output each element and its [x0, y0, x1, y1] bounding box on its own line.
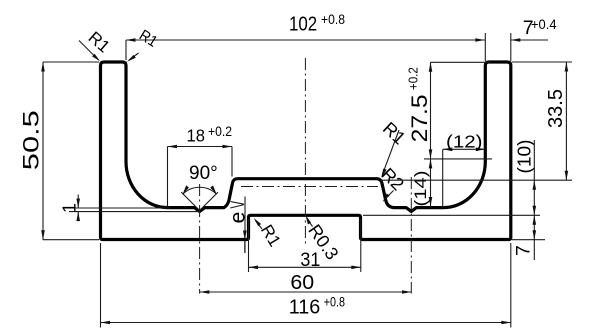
svg-text:(14): (14) — [412, 171, 430, 207]
part outline profile — [101, 62, 511, 240]
leader R1 outer top-left corner — [79, 28, 114, 61]
centerline left groove — [199, 184, 201, 294]
svg-text:31: 31 — [300, 249, 320, 271]
svg-text:116: 116 — [289, 296, 321, 319]
dimension 27.5+0.2 — [405, 62, 492, 159]
svg-text:102: 102 — [289, 13, 317, 36]
dimension 116+0.8 — [101, 243, 511, 328]
angular dimension 90 degrees — [181, 163, 218, 211]
dimension 60 — [200, 271, 412, 294]
svg-text:60: 60 — [290, 271, 314, 294]
svg-text:(12): (12) — [446, 132, 483, 152]
svg-text:(10): (10) — [514, 140, 535, 174]
dimension (14) — [412, 159, 432, 207]
dimension 50.5 left — [18, 62, 99, 240]
svg-text:18: 18 — [187, 125, 206, 145]
dimension 18+0.2 — [168, 124, 233, 206]
svg-text:33.5: 33.5 — [545, 89, 567, 128]
leader R1 inner top-left corner — [127, 27, 160, 62]
label e with leader at left step — [227, 197, 250, 254]
dimension (10) — [363, 140, 540, 216]
dimension (12) — [443, 132, 486, 208]
svg-text:7: 7 — [513, 245, 535, 256]
svg-text:+0.8: +0.8 — [321, 11, 345, 27]
leader R1 recess left corner — [254, 218, 285, 250]
dimension 7 right — [512, 215, 545, 260]
dimension 7+0.4 — [485, 16, 556, 61]
centerline horizontal middle — [241, 186, 378, 188]
centerline vertical middle — [304, 58, 306, 247]
leader R1 plateau right corner — [379, 118, 409, 178]
svg-text:27.5: 27.5 — [407, 94, 432, 142]
svg-text:+0.2: +0.2 — [208, 124, 232, 139]
leader R0.3 recess center — [304, 215, 342, 264]
dimension 102+0.8 — [126, 11, 485, 60]
svg-text:1: 1 — [59, 203, 79, 213]
svg-text:+0.2: +0.2 — [405, 67, 420, 90]
svg-text:e: e — [227, 212, 250, 224]
dimension 33.5 — [381, 62, 572, 180]
svg-text:50.5: 50.5 — [18, 110, 43, 170]
dimension 31 — [249, 219, 361, 272]
dimension 1 groove depth — [59, 195, 199, 222]
svg-text:+0.4: +0.4 — [531, 16, 557, 32]
leader R2 right step — [378, 164, 408, 202]
svg-text:+0.8: +0.8 — [324, 294, 345, 309]
svg-text:90°: 90° — [189, 163, 218, 184]
centerline right groove — [410, 177, 412, 294]
